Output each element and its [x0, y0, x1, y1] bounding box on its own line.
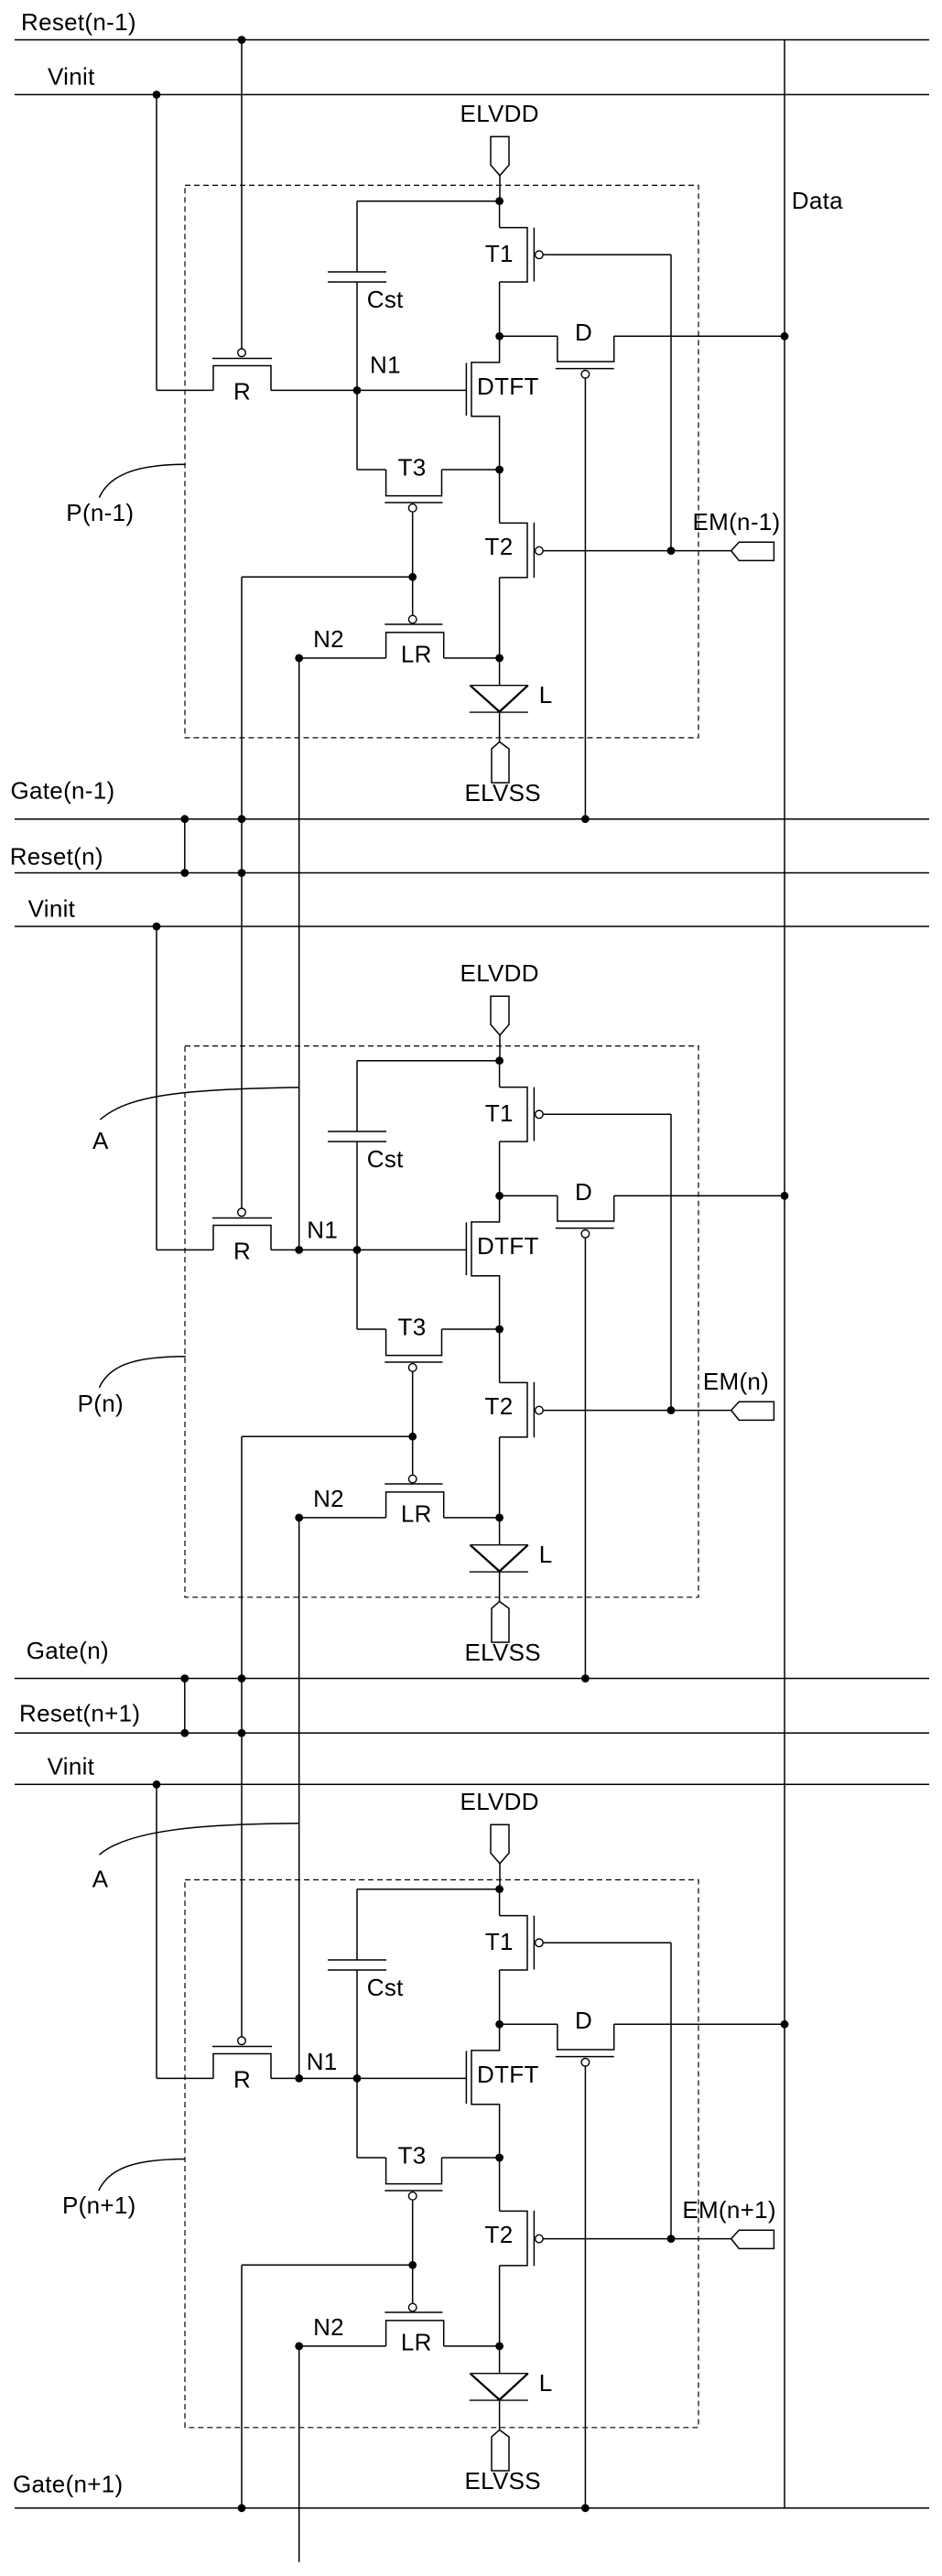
transistor T2 (pixel 3): [499, 2158, 501, 2211]
wire ELVDD node to Cst (pixel 2): [357, 1060, 500, 1062]
wire N1 (pixel 2): [271, 1249, 466, 1250]
svg-text:P(n-1): P(n-1): [66, 499, 134, 526]
node connector at Reset(n): [180, 869, 189, 877]
svg-text:EM(n-1): EM(n-1): [693, 508, 781, 536]
wire N1 (pixel 1): [271, 389, 466, 391]
svg-text:R: R: [233, 2066, 251, 2094]
node connector at Gate(n-1): [180, 815, 189, 823]
transistor LR (pixel 1): [299, 657, 386, 659]
svg-text:T2: T2: [485, 1392, 514, 1420]
svg-text:T2: T2: [485, 2221, 514, 2248]
transistor T2 (pixel 2): [499, 1329, 501, 1382]
wire ELVDD arrow to node (pixel 3): [499, 1864, 501, 1889]
wire D gate to Gate line (pixel 1): [584, 378, 586, 819]
EM terminal flag (pixel 1): [731, 542, 774, 560]
svg-text:L: L: [539, 681, 553, 709]
wire gate node to left column (pixel 1): [242, 576, 413, 578]
node connector at Gate(n): [180, 1674, 189, 1683]
svg-text:P(n+1): P(n+1): [62, 2192, 136, 2219]
svg-text:Cst: Cst: [367, 1145, 404, 1173]
wire T3 gate down (pixel 2): [412, 1371, 414, 1475]
wire T1 drain (pixel 2): [499, 1142, 501, 1196]
pixel boundary box P3 (dashed): [185, 1880, 698, 2428]
svg-text:L: L: [539, 1541, 553, 1568]
node Vinit stub (pixel 2): [153, 923, 161, 931]
ELVSS terminal arrow (pixel 3): [492, 2430, 509, 2471]
svg-text:Reset(n+1): Reset(n+1): [19, 1700, 140, 1727]
ELVDD terminal arrow (pixel 3): [491, 1824, 509, 1864]
node gate wire junction (pixel 2): [408, 1433, 417, 1441]
svg-text:Cst: Cst: [367, 286, 404, 313]
svg-text:EM(n): EM(n): [703, 1368, 769, 1395]
EM terminal flag (pixel 2): [731, 1402, 774, 1420]
wire gate node to left column (pixel 2): [242, 1435, 413, 1437]
pixel boundary box P2 (dashed): [185, 1046, 698, 1597]
Reset(n) line: [15, 872, 929, 874]
svg-text:Vinit: Vinit: [48, 1753, 95, 1780]
svg-text:Vinit: Vinit: [48, 63, 95, 91]
transistor R (pixel 1): [157, 389, 213, 391]
node T3/DTFT junction (pixel 2): [495, 1326, 503, 1334]
svg-text:L: L: [539, 2369, 553, 2397]
node D to Data line (pixel 3): [781, 2020, 789, 2029]
node gate wire junction (pixel 1): [408, 573, 417, 581]
svg-text:N1: N1: [307, 1217, 338, 1244]
node T1/DTFT/D junction (pixel 3): [495, 2020, 503, 2029]
node T1/DTFT/D junction (pixel 1): [495, 332, 503, 341]
node connector at Reset(n+1): [180, 1729, 189, 1737]
LED L (pixel 2): [499, 1518, 501, 1545]
transistor T1 (pixel 2): [499, 1061, 501, 1088]
node EM junction (pixel 2): [667, 1406, 676, 1414]
wire T3 gate down (pixel 1): [412, 512, 414, 615]
wire gate column Gate(n-1) to R gate (pixel 2): [241, 819, 243, 1208]
label P(n+1) with leader: [99, 2159, 186, 2192]
ELVSS terminal arrow (pixel 1): [492, 741, 509, 783]
wire D gate to Gate line (pixel 3): [584, 2066, 586, 2508]
node gate column at Reset(n+1): [238, 1729, 246, 1737]
LED L (pixel 1): [499, 658, 501, 686]
wire Vinit stub vertical (pixel 1): [156, 94, 157, 390]
node T1/DTFT/D junction (pixel 2): [495, 1192, 503, 1200]
Vinit line (row 1): [15, 93, 929, 95]
transistor T1 (pixel 3): [499, 1889, 501, 1916]
svg-text:LR: LR: [401, 1500, 432, 1528]
wire Gate(n-1) to Reset(n) connector: [184, 819, 186, 873]
svg-text:N2: N2: [313, 625, 344, 653]
Gate(n+1) line: [15, 2507, 929, 2509]
transistor D (pixel 3): [500, 2023, 558, 2025]
svg-text:T1: T1: [485, 1099, 514, 1127]
ELVDD terminal arrow (pixel 2): [491, 996, 509, 1035]
svg-text:P(n): P(n): [78, 1390, 124, 1417]
wire ELVDD node to Cst (pixel 3): [357, 1889, 500, 1890]
wire T1 gate to EM column (pixel 2): [543, 1113, 671, 1115]
transistor T1 (pixel 1): [499, 201, 501, 228]
svg-text:A: A: [92, 1865, 109, 1892]
node D to Data line (pixel 2): [781, 1192, 789, 1200]
wire T2 drain (pixel 2): [499, 1437, 501, 1518]
transistor R (pixel 2): [157, 1249, 213, 1250]
svg-text:T2: T2: [485, 533, 514, 560]
node N1/Cst (pixel 3): [353, 2074, 362, 2083]
svg-text:N1: N1: [307, 2048, 338, 2075]
transistor DTFT (pixel 1): [471, 336, 500, 470]
node N1 from A line (pixel 2): [295, 1246, 303, 1254]
node gate column on Gate line (pixel 2): [238, 1674, 246, 1683]
wire gate node to left column (pixel 3): [242, 2264, 413, 2266]
wire ELVDD arrow to node (pixel 2): [499, 1035, 501, 1061]
pixel boundary box P1 (dashed): [185, 185, 698, 738]
wire Gate(n) to Reset(n+1) connector: [184, 1679, 186, 1734]
node N2 (pixel 3): [295, 2343, 303, 2351]
node Reset(n-1)/R-gate: [238, 36, 246, 44]
svg-text:ELVSS: ELVSS: [465, 2467, 541, 2495]
wire Reset(n-1) to R gate (pixel 1): [241, 40, 243, 350]
capacitor Cst (pixel 3): [356, 1889, 358, 1960]
transistor T3 (pixel 2): [356, 1250, 358, 1329]
Vinit line (row 3): [15, 1783, 929, 1785]
transistor D (pixel 1): [500, 335, 558, 337]
transistor T3 (pixel 1): [356, 390, 358, 470]
node LR/LED junction (pixel 3): [495, 2343, 503, 2351]
transistor T2 (pixel 1): [499, 470, 501, 523]
Vinit line (row 2): [15, 925, 929, 927]
transistor DTFT (pixel 3): [471, 2024, 500, 2158]
svg-text:N2: N2: [313, 2313, 344, 2341]
svg-text:ELVSS: ELVSS: [465, 779, 541, 806]
svg-text:Gate(n+1): Gate(n+1): [13, 2471, 124, 2498]
svg-text:N1: N1: [370, 351, 401, 378]
node N1 from A line (pixel 3): [295, 2074, 303, 2083]
capacitor Cst (pixel 1): [356, 201, 358, 272]
svg-text:D: D: [575, 1178, 592, 1206]
wire Vinit stub vertical (pixel 3): [156, 1784, 157, 2078]
svg-text:ELVDD: ELVDD: [460, 1788, 539, 1815]
wire node A: N2 pixel1 to N1 pixel2: [298, 658, 300, 1250]
node T3/DTFT junction (pixel 1): [495, 466, 503, 474]
node N2 (pixel 1): [295, 655, 303, 663]
capacitor Cst (pixel 2): [356, 1061, 358, 1131]
LED L (pixel 3): [499, 2346, 501, 2374]
svg-text:R: R: [233, 378, 251, 406]
Data line: [784, 40, 785, 2508]
node ELVDD junction (pixel 1): [495, 197, 503, 205]
label P(n-1) with leader: [99, 464, 185, 497]
transistor T3 (pixel 3): [356, 2078, 358, 2158]
wire ELVDD arrow to node (pixel 1): [499, 176, 501, 201]
transistor DTFT (pixel 2): [471, 1196, 500, 1329]
svg-text:ELVSS: ELVSS: [465, 1639, 541, 1666]
svg-text:DTFT: DTFT: [477, 1232, 539, 1260]
svg-text:DTFT: DTFT: [477, 373, 539, 400]
svg-text:D: D: [575, 2007, 592, 2034]
svg-text:T3: T3: [398, 1313, 427, 1340]
svg-text:Reset(n): Reset(n): [10, 842, 103, 870]
svg-text:T1: T1: [485, 240, 514, 267]
wire T1 drain (pixel 3): [499, 1970, 501, 2024]
svg-text:ELVDD: ELVDD: [460, 959, 539, 987]
node gate column on Gate line (pixel 3): [238, 2504, 246, 2512]
wire T3 gate down (pixel 3): [412, 2200, 414, 2303]
wire T2 drain (pixel 1): [499, 578, 501, 658]
node gate wire junction (pixel 3): [408, 2261, 417, 2269]
node N2 (pixel 2): [295, 1514, 303, 1522]
transistor D (pixel 2): [500, 1195, 558, 1196]
wire T2 gate to EM (pixel 2): [543, 1410, 731, 1412]
Reset(n-1) line: [15, 39, 929, 41]
node D to Data line (pixel 1): [781, 332, 789, 341]
node D gate on Gate line (pixel 2): [581, 1674, 590, 1683]
Reset(n+1) line: [15, 1732, 929, 1734]
ELVSS terminal arrow (pixel 2): [492, 1601, 509, 1642]
svg-text:Reset(n-1): Reset(n-1): [21, 8, 136, 36]
wire T1 drain (pixel 1): [499, 282, 501, 336]
svg-text:T1: T1: [485, 1928, 514, 1955]
Gate(n) line: [15, 1678, 929, 1680]
node gate column on Gate line (pixel 1): [238, 815, 246, 823]
EM terminal flag (pixel 3): [731, 2230, 774, 2248]
svg-text:Gate(n-1): Gate(n-1): [11, 777, 115, 805]
svg-text:T3: T3: [398, 453, 427, 481]
transistor LR (pixel 3): [299, 2345, 386, 2347]
label P(n) with leader: [99, 1357, 185, 1388]
svg-text:T3: T3: [398, 2141, 427, 2169]
node ELVDD junction (pixel 3): [495, 1885, 503, 1893]
svg-text:Gate(n): Gate(n): [27, 1637, 109, 1664]
wire T1 gate to EM column (pixel 1): [543, 254, 671, 255]
wire N1 (pixel 3): [271, 2077, 466, 2079]
svg-text:N2: N2: [313, 1485, 344, 1512]
label node A (lower) with leader: [99, 1824, 298, 1855]
svg-text:DTFT: DTFT: [477, 2061, 539, 2088]
node N1/Cst (pixel 2): [353, 1246, 362, 1254]
svg-text:A: A: [92, 1127, 109, 1154]
svg-text:LR: LR: [401, 2329, 432, 2356]
node D gate on Gate line (pixel 1): [581, 815, 590, 823]
svg-text:Cst: Cst: [367, 1974, 404, 2001]
ELVDD terminal arrow (pixel 1): [491, 136, 509, 176]
node Vinit stub (pixel 1): [153, 91, 161, 99]
svg-text:Data: Data: [792, 187, 843, 214]
wire gate column Gate(n) to R gate (pixel 3): [241, 1679, 243, 2038]
node ELVDD junction (pixel 2): [495, 1056, 503, 1065]
label node A (upper) with leader: [100, 1088, 298, 1120]
node Vinit stub (pixel 3): [153, 1780, 161, 1789]
node LR/LED junction (pixel 2): [495, 1514, 503, 1522]
wire T2 drain (pixel 3): [499, 2266, 501, 2346]
wire T2 gate to EM (pixel 1): [543, 550, 731, 552]
svg-text:R: R: [233, 1238, 251, 1265]
node EM junction (pixel 1): [667, 547, 676, 555]
svg-text:Vinit: Vinit: [28, 895, 76, 923]
wire node A: N2 pixel2 to N1 pixel3: [298, 1518, 300, 2078]
wire Vinit stub vertical (pixel 2): [156, 926, 157, 1250]
svg-text:LR: LR: [401, 641, 432, 668]
wire D gate to Gate line (pixel 2): [584, 1238, 586, 1678]
wire N2 pixel3 down: [298, 2346, 300, 2562]
node T3/DTFT junction (pixel 3): [495, 2154, 503, 2162]
node D gate on Gate line (pixel 3): [581, 2504, 590, 2512]
transistor R (pixel 3): [157, 2077, 213, 2079]
svg-text:D: D: [575, 319, 592, 346]
svg-text:EM(n+1): EM(n+1): [682, 2196, 776, 2224]
transistor LR (pixel 2): [299, 1517, 386, 1519]
svg-text:ELVDD: ELVDD: [460, 100, 539, 127]
wire T1 gate to EM column (pixel 3): [543, 1942, 671, 1943]
node LR/LED junction (pixel 1): [495, 655, 503, 663]
wire T2 gate to EM (pixel 3): [543, 2238, 731, 2240]
Gate(n-1) line: [15, 818, 929, 820]
node EM junction (pixel 3): [667, 2235, 676, 2243]
wire ELVDD node to Cst (pixel 1): [357, 200, 500, 202]
node gate column at Reset(n): [238, 869, 246, 877]
node N1/Cst (pixel 1): [353, 386, 362, 395]
